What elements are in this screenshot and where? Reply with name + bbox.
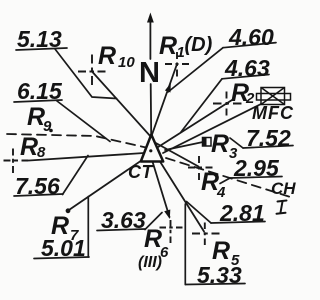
svg-text:R: R xyxy=(98,42,116,70)
svg-text:R: R xyxy=(51,212,69,240)
svg-text:CT: CT xyxy=(128,162,154,182)
svg-text:7.56: 7.56 xyxy=(15,173,60,199)
svg-text:R: R xyxy=(211,130,229,158)
svg-text:4.63: 4.63 xyxy=(224,55,270,81)
svg-text:N: N xyxy=(139,57,160,89)
svg-text:3: 3 xyxy=(229,145,238,162)
svg-text:4: 4 xyxy=(216,184,226,201)
svg-text:(D): (D) xyxy=(185,34,213,56)
svg-text:2.81: 2.81 xyxy=(219,200,265,226)
svg-text:4.60: 4.60 xyxy=(228,24,274,50)
svg-text:CH: CH xyxy=(271,179,296,198)
svg-text:9: 9 xyxy=(43,118,52,135)
svg-text:MFC: MFC xyxy=(252,103,294,123)
svg-text:8: 8 xyxy=(37,144,46,161)
svg-text:2.95: 2.95 xyxy=(233,155,280,181)
svg-text:7.52: 7.52 xyxy=(246,125,291,151)
svg-text:R: R xyxy=(20,133,38,161)
svg-text:R: R xyxy=(159,32,177,60)
svg-text:(III): (III) xyxy=(138,254,162,271)
svg-text:5.13: 5.13 xyxy=(17,26,62,52)
svg-text:7: 7 xyxy=(70,227,79,244)
svg-text:R: R xyxy=(212,237,230,265)
svg-text:10: 10 xyxy=(118,54,135,71)
svg-text:6.15: 6.15 xyxy=(17,78,63,104)
svg-text:5: 5 xyxy=(231,252,240,269)
svg-text:3.63: 3.63 xyxy=(101,207,146,233)
